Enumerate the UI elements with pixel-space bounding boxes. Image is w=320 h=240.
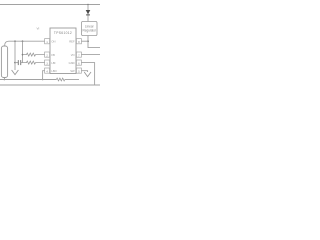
- node junction REF: [87, 40, 89, 42]
- pin 1: [45, 39, 50, 44]
- wire SW pin to ground: [81, 71, 87, 72]
- wire VI pin to battery: [5, 41, 45, 46]
- wire VO output: [81, 54, 100, 56]
- svg-text:LBI: LBI: [51, 61, 55, 65]
- wire battery minus stub: [3, 78, 5, 80]
- wire C1 vertical: [14, 41, 16, 70]
- wire REF pin to junction: [81, 40, 88, 42]
- op-amp U1 TPS61012: [50, 28, 76, 74]
- svg-text:LBO: LBO: [51, 69, 56, 73]
- svg-text:TPS61012: TPS61012: [54, 31, 72, 35]
- node junction GND rail: [42, 79, 44, 81]
- pin 8: [76, 39, 81, 44]
- pin 6: [76, 60, 81, 65]
- wire divider vertical: [22, 41, 24, 62]
- node junction R1: [22, 54, 24, 56]
- svg-text:VI: VI: [37, 27, 40, 31]
- wire diode branch: [87, 5, 89, 22]
- wire GND pin to rail: [43, 71, 45, 80]
- pin 2: [45, 52, 50, 57]
- wire rail B: [0, 84, 100, 86]
- wire GND pin right to rail B: [81, 63, 94, 85]
- svg-text:ON: ON: [51, 39, 55, 43]
- wire rail A left: [0, 79, 56, 81]
- linear regulator U2: [82, 22, 98, 36]
- resistor R2: [23, 61, 45, 64]
- svg-text:VO: VO: [71, 53, 75, 57]
- wire linear regulator output: [88, 36, 100, 48]
- node junction divider top: [22, 40, 24, 42]
- node battery minus on rail: [4, 79, 6, 81]
- svg-text:GND: GND: [69, 61, 75, 65]
- node junction top rail: [87, 4, 89, 6]
- capacitor C1: [15, 60, 23, 65]
- pin 4: [45, 68, 50, 73]
- background: [0, 0, 100, 100]
- resistor R3: [56, 78, 64, 81]
- ground G2: [84, 72, 91, 77]
- ground G1: [12, 70, 19, 75]
- wire top rail VI: [0, 4, 100, 6]
- pin 5: [76, 68, 81, 73]
- svg-text:Regulator: Regulator: [82, 29, 96, 33]
- resistor R1: [23, 53, 45, 56]
- pin 3: [45, 60, 50, 65]
- node junction C1 top: [14, 40, 16, 42]
- svg-text:FB: FB: [51, 53, 55, 57]
- node junction C1 branch: [14, 62, 16, 64]
- svg-text:SW: SW: [70, 69, 75, 73]
- svg-text:REF: REF: [69, 39, 75, 43]
- wire rail A right: [65, 79, 79, 81]
- battery BT1: [1, 46, 7, 78]
- pin 7: [76, 52, 81, 57]
- diode D1: [86, 10, 91, 15]
